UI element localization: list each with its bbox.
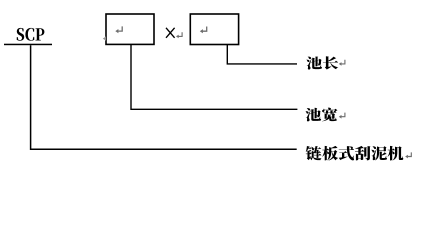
pilcrow mark after 池长 bbox=[340, 60, 345, 64]
label 池宽 (pool width) bbox=[306, 108, 338, 122]
pilcrow mark in box B2 bbox=[201, 27, 206, 32]
underline under SCP bbox=[4, 44, 52, 46]
pilcrow mark after 池宽 bbox=[340, 113, 345, 117]
wire from SCP down and right to scraper label bbox=[31, 45, 297, 149]
label 池长 (pool length) bbox=[306, 56, 338, 69]
wire from box B2 to pool-length label bbox=[227, 45, 297, 64]
wire from box B1 to pool-width label bbox=[131, 44, 297, 109]
model code SCP bbox=[17, 28, 45, 41]
box B1 (pool width field) bbox=[106, 14, 154, 44]
label 链板式刮泥机 (chain-plate sludge scraper) bbox=[306, 146, 404, 161]
pilcrow mark after 链板式刮泥机 bbox=[407, 152, 412, 156]
multiplication sign bbox=[166, 28, 175, 38]
pilcrow mark after multiplication sign bbox=[177, 32, 182, 36]
box B2 (pool length field) bbox=[190, 14, 238, 45]
pilcrow mark in box B1 bbox=[117, 26, 122, 31]
anchor marker left of box B1 bbox=[103, 36, 106, 40]
